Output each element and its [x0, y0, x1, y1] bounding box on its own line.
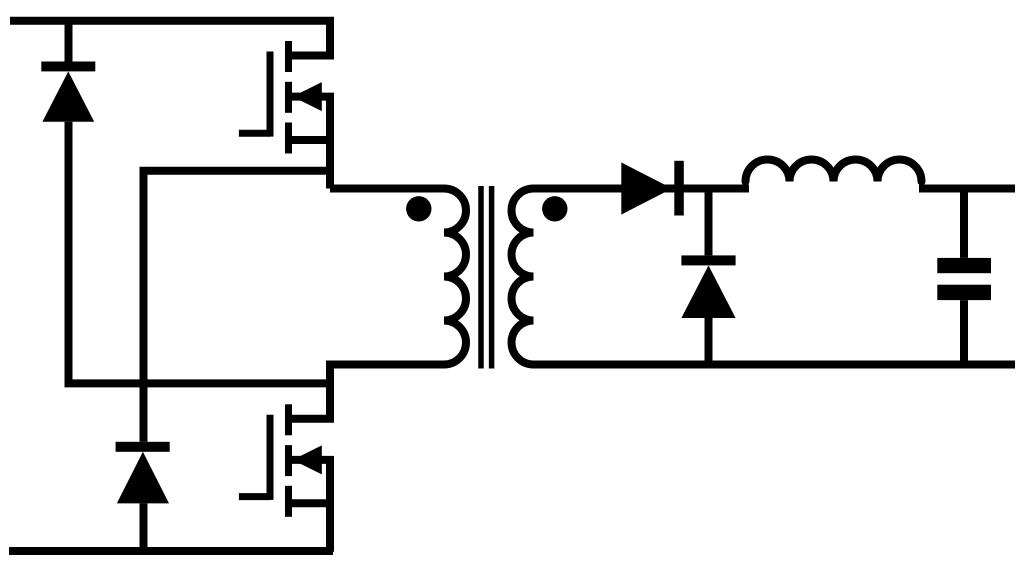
Q2 gate lead [239, 493, 270, 500]
inductor L1 (4 bumps) [746, 160, 922, 182]
Q2 channel bar (drain) [285, 404, 292, 435]
Q1 channel bar (body) [285, 82, 292, 113]
transistor Q1 (upper N-MOSFET with body diode) [239, 41, 330, 189]
transformer T1 core line left [478, 186, 484, 369]
wire C1 top lead [960, 189, 968, 258]
wire Q1 source to clamp column (node A) [144, 171, 331, 442]
Q1 source connector [289, 136, 331, 144]
capacitor C1 top plate [937, 258, 991, 273]
wire bottom input rail [9, 547, 333, 555]
wire primary bottom + Q2 drain riser and drain connector [289, 365, 445, 419]
transformer T1 primary polarity dot [406, 196, 431, 221]
Q1 body-diode arrow (pointing left) [293, 82, 322, 111]
diode D1 triangle (pointing up) [42, 71, 94, 121]
transformer T1 secondary polarity dot [542, 196, 567, 221]
wire C1 bottom lead [960, 300, 968, 364]
Q2 source connector [289, 499, 331, 507]
diode D2 clamp cathode bar [116, 442, 170, 452]
wire top input rail + Q1 drain riser and drain connector [10, 21, 330, 56]
Q1 gate line [267, 52, 274, 137]
wire D4 cathode riser [705, 189, 713, 256]
transformer T1 primary winding (4 loops) [444, 189, 466, 365]
capacitor C1 bottom plate [937, 285, 991, 300]
diode D3 cathode bar [674, 161, 684, 216]
transistor Q2 (lower N-MOSFET with body diode) [239, 404, 330, 552]
diode D1 clamp cathode lead [65, 21, 73, 62]
Q2 channel bar (body) [285, 445, 292, 476]
diode D1 cathode bar [41, 62, 95, 72]
diode D2 triangle (pointing up) [117, 452, 169, 504]
diode D4 triangle (pointing up) [681, 265, 735, 318]
wire D1 anode down to primary-bottom node [69, 122, 331, 384]
wire L1 to output node [919, 185, 1015, 193]
transformer T1 secondary winding (4 loops) [512, 189, 534, 365]
wire secondary bottom return rail [534, 361, 1016, 369]
Q1 channel bar (source) [285, 123, 292, 154]
Q1 gate lead [239, 130, 270, 137]
diode D4 freewheel cathode bar [681, 255, 735, 265]
Q2 gate line [267, 415, 274, 500]
Q2 body-diode shaft and source/body vertical [289, 460, 331, 552]
Q2 channel bar (source) [285, 486, 292, 517]
wire D2 anode to bottom rail [140, 503, 148, 551]
wire Q1 source to transformer primary top [330, 185, 444, 193]
wire D4 anode to bottom rail [705, 318, 713, 365]
Q1 body-diode shaft and source/body vertical [289, 97, 331, 189]
diode D3 rectifier triangle (pointing right) [621, 162, 672, 214]
Q1 channel bar (drain) [285, 41, 292, 72]
Q2 body-diode arrow (pointing left) [293, 445, 322, 474]
wire secondary top (transformer to L1) [534, 185, 750, 193]
transformer T1 core line right [489, 186, 495, 369]
